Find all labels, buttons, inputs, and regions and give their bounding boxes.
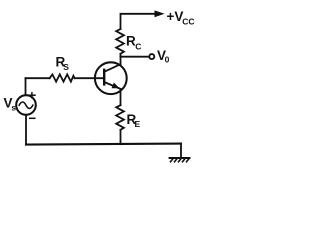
resistor RE (zigzag)	[116, 105, 124, 130]
label Vs	[4, 96, 17, 113]
label +VCC	[167, 9, 195, 27]
source Vs plus sign	[29, 93, 35, 98]
source Vs minus sign	[30, 117, 35, 119]
label RC	[126, 34, 141, 52]
transistor Q1 base bar	[103, 70, 105, 85]
wire: VCC top rail from collector riser to supply arrow	[121, 14, 156, 29]
wire: RS to transistor base	[75, 77, 105, 79]
svg-text:CC: CC	[182, 17, 194, 27]
svg-text:E: E	[135, 119, 141, 129]
svg-text:0: 0	[165, 54, 170, 64]
wire: bottom rail	[26, 144, 181, 145]
label V0	[157, 48, 170, 65]
wire: input from source corner to base	[26, 77, 50, 79]
transistor Q1 collector lead	[104, 64, 120, 72]
power supply arrow +VCC	[155, 10, 165, 17]
terminal V0 (open dot)	[149, 54, 154, 59]
wire: collector riser from RC to transistor collector	[120, 54, 122, 64]
svg-text:S: S	[63, 62, 69, 72]
source Vs circle	[16, 95, 36, 115]
svg-text:s: s	[11, 103, 16, 113]
label RE	[127, 112, 141, 129]
wire: output stub to V0 terminal	[121, 56, 149, 58]
wire: RE to bottom rail	[120, 130, 122, 144]
resistor RS (zigzag)	[50, 74, 75, 81]
transistor Q1 emitter lead	[104, 82, 120, 89]
wire: emitter to RE	[120, 89, 122, 105]
wire: drop to ground	[180, 144, 182, 158]
source Vs sine wave	[19, 102, 33, 108]
wire: left riser from base wire down to source top	[25, 78, 27, 95]
resistor RC (zigzag)	[116, 29, 124, 54]
transistor Q1 emitter arrowhead	[112, 83, 120, 89]
label RS	[56, 54, 70, 71]
wire: source bottom down to ground rail	[25, 115, 27, 145]
svg-text:C: C	[135, 42, 141, 52]
svg-text:+V: +V	[167, 9, 184, 24]
ground	[170, 158, 190, 162]
transistor Q1 (NPN) body circle	[95, 62, 127, 94]
